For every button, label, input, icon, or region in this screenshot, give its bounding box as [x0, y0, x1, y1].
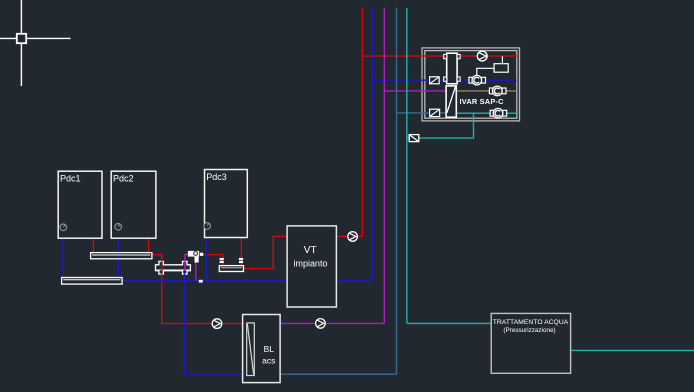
SAP pump — [477, 51, 487, 61]
SAP safety valve upper — [430, 77, 440, 84]
ball valve brown line — [489, 86, 506, 96]
dhw manifold bar3 — [219, 266, 243, 272]
heat pump Pdc1 — [58, 171, 102, 238]
VT impianto tank — [287, 226, 336, 307]
svg-text:Pdc1: Pdc1 — [60, 174, 81, 184]
valve tick bar3 left — [220, 258, 224, 263]
pump-valve cluster — [188, 251, 203, 263]
wire red drop Pdc3 — [240, 238, 242, 266]
wire blue header to BL acs — [184, 270, 242, 374]
wire magenta branch into SAP — [384, 90, 446, 92]
wire teal riser — [406, 8, 408, 323]
probe tick — [199, 280, 203, 283]
gauge Pdc3 — [204, 223, 211, 230]
pump P3 red to VT — [348, 232, 358, 242]
ball valve blue line — [469, 75, 486, 85]
wire red branch into SAP — [362, 55, 443, 57]
svg-text:IVAR SAP-C: IVAR SAP-C — [460, 97, 505, 106]
svg-text:impianto: impianto — [293, 259, 327, 269]
wire magenta probe drop — [195, 258, 197, 281]
water treatment unit — [491, 313, 570, 373]
wire blue VT to riser — [336, 280, 372, 282]
wire steelblue riser — [396, 8, 398, 375]
pump P2 magenta — [316, 319, 326, 329]
wire red drop Pdc2 — [148, 238, 150, 252]
wire red supply-bar through header to BL acs — [152, 255, 243, 324]
svg-text:(Pressurizzazione): (Pressurizzazione) — [503, 327, 555, 334]
ball valve teal line — [490, 108, 507, 118]
wire red VT to riser — [336, 235, 362, 237]
SAP separator — [446, 86, 456, 117]
SAP heat exchanger — [444, 53, 460, 84]
heat pump Pdc3 — [205, 170, 248, 238]
wire steelblue valve to separator — [439, 112, 446, 114]
BL acs exchanger coil — [247, 323, 255, 376]
wire red bar3 to VT — [244, 236, 288, 268]
gauge Pdc2 — [115, 224, 122, 231]
wire blue drop Pdc1 — [62, 238, 64, 277]
wire teal SAP separator to right edge — [456, 112, 517, 114]
svg-text:TRATTAMENTO ACQUA: TRATTAMENTO ACQUA — [493, 319, 569, 326]
heat pump Pdc2 — [111, 171, 156, 238]
wire red pump-cluster to bar3 — [203, 255, 223, 266]
svg-text:Pdc2: Pdc2 — [113, 174, 134, 184]
svg-text:acs: acs — [262, 356, 275, 366]
valve tick bar3 right — [239, 258, 243, 263]
IVAR SAP-C enclosure — [422, 48, 520, 121]
return manifold bar — [62, 278, 123, 285]
svg-text:BL: BL — [264, 344, 275, 354]
wire blue valve to exchanger — [439, 79, 444, 81]
wire teal riser to water treatment — [407, 322, 491, 324]
wire teal water treatment out — [571, 349, 694, 351]
svg-text:VT: VT — [304, 245, 317, 256]
wire magenta header port up — [185, 255, 189, 271]
BL acs tank — [243, 315, 281, 383]
crosshair cursor — [0, 0, 71, 86]
wire blue drop Pdc2 — [118, 238, 120, 277]
wire red drop Pdc1 — [92, 238, 94, 252]
hydraulic separator header — [156, 261, 191, 274]
wire steelblue BL acs bottom — [280, 373, 396, 375]
wire teal branch to check valve — [407, 137, 409, 139]
wire brown separator to right edge — [456, 90, 517, 92]
svg-text:Pdc3: Pdc3 — [206, 172, 227, 182]
check valve teal branch — [409, 135, 419, 142]
wire blue riser — [371, 8, 373, 281]
wire blue branch into SAP — [372, 79, 430, 81]
SAP expansion tank — [477, 56, 508, 76]
wire blue SAP exchanger to right edge — [460, 79, 517, 81]
SAP safety valve lower — [430, 109, 440, 116]
wire blue drop Pdc3 — [205, 238, 207, 281]
wire teal check valve to SAP — [419, 113, 474, 138]
pump P1 red to BL — [212, 319, 222, 329]
wire steelblue branch into SAP — [397, 112, 430, 114]
wire magenta riser — [383, 8, 385, 324]
wire red riser — [361, 8, 363, 237]
wire red SAP exchanger to right edge — [460, 55, 517, 57]
supply manifold bar — [91, 253, 152, 259]
wire magenta BL acs to riser — [280, 322, 384, 324]
gauge Pdc1 — [60, 224, 67, 231]
wire blue return-bar to VT — [122, 280, 287, 282]
